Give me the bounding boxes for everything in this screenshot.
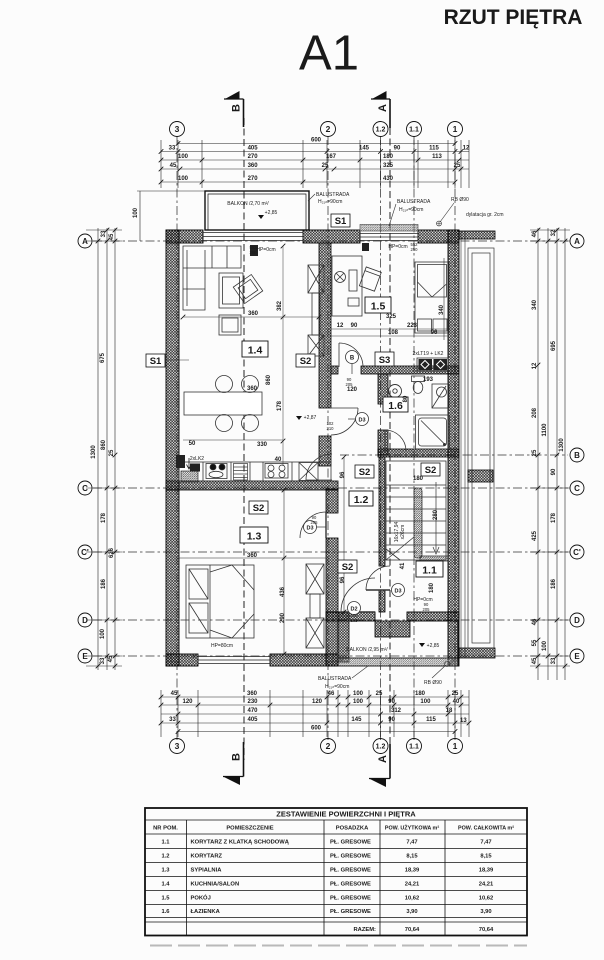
svg-text:100: 100: [178, 176, 189, 182]
svg-text:100: 100: [420, 699, 431, 705]
balustrada label top-right: [389, 199, 431, 226]
svg-text:600: 600: [311, 726, 322, 732]
svg-text:x26cm: x26cm: [400, 525, 406, 540]
svg-text:BALUSTRADA: BALUSTRADA: [397, 199, 431, 205]
grid axis line B horizontal: [340, 454, 568, 456]
svg-text:18,39: 18,39: [405, 868, 420, 874]
svg-text:1.2: 1.2: [354, 494, 369, 506]
svg-text:1.5: 1.5: [161, 896, 170, 902]
svg-text:24,21: 24,21: [405, 882, 420, 888]
bathroom west wall upper: [378, 374, 388, 404]
interior dim line 1.3 vertical: [179, 490, 326, 654]
door tag D3 stairs: [392, 584, 405, 597]
svg-text:ZESTAWIENIE POWIERZCHNI I PIĘT: ZESTAWIENIE POWIERZCHNI I PIĘTRA: [276, 810, 416, 819]
svg-text:186: 186: [551, 578, 557, 589]
svg-text:205: 205: [351, 618, 359, 623]
svg-text:290: 290: [280, 612, 286, 623]
level marker +2.85 bottom balcony: [419, 643, 440, 649]
svg-text:1.3: 1.3: [247, 531, 262, 543]
svg-text:186: 186: [101, 578, 107, 589]
svg-text:193: 193: [423, 377, 434, 383]
svg-text:PŁ. GRESOWE: PŁ. GRESOWE: [330, 896, 371, 902]
svg-text:POMIESZCZENIE: POMIESZCZENIE: [226, 826, 273, 832]
svg-text:325: 325: [383, 163, 394, 169]
svg-text:178: 178: [551, 512, 557, 523]
svg-text:180: 180: [429, 582, 435, 593]
grid bubble 1 top: [448, 122, 463, 137]
svg-text:25: 25: [454, 163, 461, 169]
window jamb roller block 1.4: [250, 245, 258, 256]
room label 1.3: [240, 527, 268, 543]
svg-text:S1: S1: [335, 216, 347, 227]
grid axis line 3: [176, 136, 178, 740]
svg-text:E: E: [574, 652, 580, 661]
grid bubble 1.1 bottom: [407, 739, 422, 754]
svg-text:270: 270: [248, 176, 259, 182]
svg-text:S3: S3: [379, 355, 391, 366]
interior dimension texts 1.3: [247, 553, 286, 623]
left dimension column: [86, 228, 122, 670]
grid bubble 2 bottom: [321, 739, 336, 754]
interior wall under room 1.5 east part: [361, 366, 459, 374]
svg-text:626: 626: [109, 547, 115, 558]
svg-text:205: 205: [311, 520, 319, 525]
kitchen counter room 1.4: [179, 462, 331, 481]
door corridor to stairs: [366, 566, 390, 590]
svg-text:210: 210: [327, 426, 335, 431]
balustrada label top-left: [308, 192, 350, 205]
svg-text:1: 1: [453, 124, 458, 134]
svg-text:HP: HP: [191, 654, 197, 659]
svg-text:+2,87: +2,87: [304, 415, 317, 421]
scan artifact line below table: [150, 945, 527, 947]
grid axis line C horizontal: [93, 487, 568, 489]
svg-text:40: 40: [275, 457, 282, 463]
balustrade french balcony grey band: [360, 225, 418, 232]
svg-text:90: 90: [388, 717, 395, 723]
svg-text:1.1: 1.1: [161, 839, 170, 845]
svg-text:KUCHNIA/SALON: KUCHNIA/SALON: [191, 882, 240, 888]
svg-text:1.1: 1.1: [422, 565, 437, 577]
grid axis line 1.2: [380, 136, 382, 740]
RB drain bottom: [424, 662, 450, 687]
svg-text:BALKON /2,95 m²/: BALKON /2,95 m²/: [346, 647, 388, 653]
grid axis line A horizontal: [93, 240, 568, 242]
stairs room 1.1: [386, 461, 446, 560]
section marker A bottom: [369, 744, 390, 787]
svg-text:7,47: 7,47: [480, 839, 491, 845]
door arc kitchen to corridor: [306, 454, 332, 480]
grid bubble 1.1 top: [407, 122, 422, 137]
exterior wall top segment east: [418, 230, 459, 243]
svg-text:100: 100: [353, 699, 364, 705]
svg-text:H₂₁ₙ=90cm: H₂₁ₙ=90cm: [318, 199, 342, 205]
svg-text:167: 167: [326, 154, 337, 160]
interior dim line corridor vertical: [343, 457, 345, 612]
svg-text:100: 100: [542, 640, 548, 651]
svg-text:D: D: [82, 616, 88, 625]
kitchen fridge crossed: [299, 463, 318, 481]
grid bubble E right: [570, 649, 584, 663]
svg-text:1.4: 1.4: [161, 882, 170, 888]
svg-text:B: B: [350, 356, 355, 362]
svg-text:96: 96: [340, 471, 346, 478]
svg-text:A: A: [377, 755, 389, 763]
lintel label S2 corridor top: [355, 465, 374, 478]
small stacked jamb numbers: [191, 242, 430, 659]
svg-text:25: 25: [452, 691, 459, 697]
svg-text:1.6: 1.6: [161, 909, 170, 915]
svg-text:3: 3: [175, 741, 180, 751]
room label 1.2: [349, 491, 373, 506]
svg-text:180: 180: [383, 154, 394, 160]
svg-text:230: 230: [247, 699, 258, 705]
svg-text:425: 425: [532, 530, 538, 541]
svg-text:96: 96: [340, 576, 346, 583]
svg-text:2: 2: [326, 741, 331, 751]
bed room 1.5: [415, 262, 449, 333]
grid bubble 3 top: [170, 122, 185, 137]
exterior wall top segment middle: [303, 230, 360, 243]
svg-text:180: 180: [413, 476, 424, 482]
svg-text:405: 405: [247, 717, 258, 723]
svg-text:55: 55: [532, 639, 538, 646]
svg-text:H₂₁ₙ=90cm: H₂₁ₙ=90cm: [399, 207, 423, 213]
svg-text:115: 115: [429, 146, 439, 152]
grid bubble A right: [570, 234, 584, 248]
balcony side dim: [137, 191, 205, 241]
svg-text:120: 120: [347, 387, 358, 393]
svg-text:24,21: 24,21: [479, 882, 494, 888]
svg-text:POSADZKA: POSADZKA: [336, 826, 369, 832]
svg-text:40: 40: [453, 699, 460, 705]
svg-text:RB Ø90: RB Ø90: [424, 680, 442, 686]
bathroom west wall lower: [378, 430, 388, 455]
bathroom sink counter: [412, 376, 425, 394]
kitchen wall between 1.4 and 1.3: [166, 481, 338, 490]
svg-text:33: 33: [551, 657, 557, 664]
svg-text:470: 470: [247, 708, 258, 714]
svg-text:+2,85: +2,85: [427, 643, 440, 649]
svg-text:12: 12: [463, 146, 470, 152]
ticks on 1.4 interior dims: [281, 315, 286, 320]
svg-text:280: 280: [433, 509, 439, 520]
svg-text:25: 25: [322, 163, 329, 169]
svg-text:108: 108: [388, 330, 399, 336]
svg-text:695: 695: [551, 340, 557, 351]
door tag D2 balcony door: [348, 602, 361, 615]
grid bubble B right: [570, 448, 584, 462]
svg-text:BALKON /2,70 m²/: BALKON /2,70 m²/: [227, 201, 269, 207]
svg-text:BALUSTRADA: BALUSTRADA: [316, 192, 350, 198]
svg-text:S2: S2: [253, 503, 265, 514]
svg-text:33: 33: [100, 657, 106, 664]
door tag B hall: [346, 351, 359, 375]
grid axis line 1: [454, 136, 456, 740]
svg-text:208: 208: [532, 407, 538, 418]
svg-text:A: A: [377, 104, 389, 112]
svg-text:33: 33: [169, 146, 176, 152]
sofa L-shape room 1.4: [183, 246, 241, 310]
lintel label S2 corridor bottom: [338, 560, 357, 573]
interior wall between 1.4 and 1.5/corridor upper part: [319, 243, 331, 408]
svg-text:D: D: [574, 616, 580, 625]
svg-text:10,62: 10,62: [479, 896, 494, 902]
grid bubble C right: [570, 481, 584, 495]
svg-text:1300: 1300: [91, 445, 97, 459]
svg-text:D3: D3: [306, 526, 313, 532]
grid bubble E left: [78, 649, 92, 663]
stair direction arrow: [433, 482, 439, 554]
stair rail center: [414, 488, 422, 558]
side table room 1.4: [219, 315, 241, 335]
wardrobe column room 1.4: [308, 265, 324, 356]
bathroom shower: [416, 415, 450, 449]
svg-text:3: 3: [175, 124, 180, 134]
interior dimension texts 1.5 and hall: [337, 304, 445, 402]
window room 1.5 french balcony: [360, 231, 418, 242]
dining chairs: [216, 376, 259, 432]
svg-text:NR POM.: NR POM.: [153, 826, 178, 832]
svg-text:145: 145: [359, 146, 370, 152]
svg-text:C': C': [81, 548, 89, 557]
lintel label S2 near wardrobe 1.4: [296, 354, 315, 367]
svg-text:2xLK2: 2xLK2: [190, 456, 204, 462]
interior dim line vertical room 1.4: [183, 246, 319, 466]
svg-text:10,62: 10,62: [405, 896, 420, 902]
svg-text:HP=0cm: HP=0cm: [388, 244, 407, 250]
grid bubble 1.2 top: [373, 122, 388, 137]
svg-text:8,15: 8,15: [480, 854, 492, 860]
level marker +2.85 top balcony: [258, 210, 278, 219]
svg-text:675: 675: [100, 352, 106, 363]
svg-text:120: 120: [182, 699, 193, 705]
wall stub below stair door: [379, 590, 385, 612]
svg-text:860: 860: [101, 439, 107, 450]
svg-text:1.2: 1.2: [376, 744, 386, 751]
svg-text:C: C: [82, 484, 88, 493]
level marker +2.87 room 1.4: [296, 415, 317, 421]
balcony bottom balustrade grey band: [338, 658, 458, 666]
svg-text:45: 45: [108, 655, 114, 662]
svg-text:C: C: [574, 484, 580, 493]
svg-text:+2,85: +2,85: [265, 210, 278, 216]
interior dim line 1.5 vertical: [443, 258, 445, 340]
svg-text:430: 430: [383, 176, 394, 182]
svg-text:180: 180: [415, 691, 426, 697]
svg-text:205: 205: [423, 607, 431, 612]
svg-text:POKÓJ: POKÓJ: [191, 894, 211, 902]
svg-text:POW. UŻYTKOWA m²: POW. UŻYTKOWA m²: [385, 825, 440, 832]
svg-text:A: A: [574, 237, 580, 246]
room label 1.5: [365, 297, 391, 313]
svg-text:KORYTARZ Z KLATKĄ SCHODOWĄ: KORYTARZ Z KLATKĄ SCHODOWĄ: [191, 839, 290, 845]
grid axis line D horizontal: [93, 619, 568, 621]
door 1.4 to corridor arc: [331, 408, 358, 435]
svg-text:POW. CAŁKOWITA m²: POW. CAŁKOWITA m²: [458, 826, 514, 832]
neighbour building bottom hatch band: [459, 648, 495, 658]
svg-text:100: 100: [133, 207, 139, 218]
svg-text:115: 115: [426, 717, 436, 723]
svg-text:100: 100: [353, 691, 364, 697]
svg-text:25: 25: [109, 449, 115, 456]
svg-text:250: 250: [250, 250, 258, 255]
svg-text:1300: 1300: [559, 438, 565, 452]
neighbour building outline: [468, 248, 494, 648]
svg-text:18: 18: [446, 708, 453, 714]
svg-text:8,15: 8,15: [406, 854, 418, 860]
kitchen sink: [206, 464, 227, 479]
svg-text:45: 45: [532, 657, 538, 664]
window jamb roller block 1.5: [362, 243, 369, 251]
wall between 1.3 and corridor upper: [326, 489, 338, 513]
svg-text:100: 100: [100, 628, 106, 639]
washer dryer units hall: [417, 358, 448, 371]
svg-text:H₂₁ₙ=90cm: H₂₁ₙ=90cm: [325, 684, 349, 690]
svg-text:S1: S1: [150, 356, 162, 367]
svg-text:1.1: 1.1: [409, 127, 419, 134]
svg-text:BALUSTRADA: BALUSTRADA: [318, 676, 352, 682]
svg-text:dylatacja gr. 2cm: dylatacja gr. 2cm: [466, 212, 504, 218]
svg-text:46: 46: [532, 230, 538, 237]
desk room 1.5: [332, 256, 362, 316]
svg-text:25: 25: [532, 449, 538, 456]
svg-text:360: 360: [248, 311, 259, 317]
svg-text:RB Ø90: RB Ø90: [451, 197, 469, 203]
svg-text:1.2: 1.2: [376, 127, 386, 134]
svg-text:178: 178: [277, 400, 283, 411]
kitchen dark appliances: [176, 455, 200, 482]
svg-text:B: B: [574, 451, 580, 460]
section line A-A vertical: [389, 128, 391, 762]
grid axis line 2: [327, 136, 329, 740]
balcony west side wall: [338, 612, 349, 662]
svg-text:382: 382: [277, 300, 283, 311]
svg-text:340: 340: [439, 304, 445, 315]
interior dim line room 1.5: [331, 329, 448, 336]
interior dimension texts stairs corridor: [340, 471, 439, 593]
bathroom washbasin round: [389, 385, 402, 398]
svg-text:D3: D3: [394, 589, 401, 595]
south wall of stair hall west part: [326, 612, 375, 621]
svg-text:41: 41: [400, 562, 406, 569]
svg-text:PŁ. GRESOWE: PŁ. GRESOWE: [330, 868, 371, 874]
svg-text:33: 33: [169, 717, 176, 723]
wall connector SE corner of room 1.3: [326, 612, 338, 666]
top dimension block: [161, 140, 469, 188]
south wall of stair hall east part: [407, 612, 459, 621]
coffee table room 1.4: [219, 273, 243, 308]
exterior landing hatched block: [375, 621, 410, 637]
dining table room 1.4: [184, 392, 262, 415]
svg-text:1100: 1100: [542, 423, 548, 437]
balcony top-left balustrade: [205, 191, 309, 230]
svg-text:360: 360: [247, 553, 258, 559]
grid bubble 3 bottom: [170, 739, 185, 754]
svg-text:113: 113: [432, 154, 442, 160]
svg-text:3,90: 3,90: [406, 909, 417, 915]
svg-text:D2: D2: [350, 607, 357, 613]
exterior wall left: [166, 230, 179, 666]
kitchen stove: [265, 464, 288, 479]
balustrada label bottom: [318, 666, 368, 690]
grid bubble C' left: [78, 545, 92, 559]
right dimension column: [530, 228, 570, 680]
svg-text:360: 360: [247, 386, 258, 392]
wall between corridor 1.2 and stairs 1.1: [379, 457, 385, 566]
svg-text:A: A: [82, 237, 88, 246]
svg-text:E: E: [82, 652, 88, 661]
svg-text:3,90: 3,90: [480, 909, 491, 915]
lintel label S2 stairs top: [421, 463, 440, 476]
wall between 1.3 and corridor lower: [326, 538, 338, 612]
svg-text:145: 145: [351, 717, 362, 723]
svg-text:178: 178: [101, 512, 107, 523]
interior dimension texts 1.4: [189, 300, 283, 463]
svg-text:B: B: [231, 753, 243, 761]
bathroom door arc: [385, 430, 406, 451]
svg-text:2xLT19 + LK2: 2xLT19 + LK2: [413, 351, 444, 357]
svg-text:45: 45: [170, 163, 177, 169]
svg-text:90: 90: [551, 468, 557, 475]
interior wall between 1.4 and corridor lower stub: [319, 436, 331, 466]
svg-text:120: 120: [312, 699, 323, 705]
svg-text:S2: S2: [425, 465, 437, 476]
svg-text:13: 13: [460, 718, 467, 724]
door to balcony from stair hall: [341, 578, 375, 612]
svg-text:223: 223: [407, 323, 418, 329]
section marker A top: [371, 91, 390, 128]
exterior wall bottom segment under room 1.3: [270, 654, 338, 666]
bathroom south wall: [378, 449, 459, 457]
grid bubble C' right: [570, 545, 584, 559]
svg-text:32: 32: [551, 229, 557, 236]
svg-text:18,39: 18,39: [479, 868, 494, 874]
svg-text:600: 600: [311, 138, 322, 144]
svg-text:1.3: 1.3: [161, 868, 170, 874]
svg-text:C': C': [573, 548, 581, 557]
svg-text:25: 25: [376, 691, 383, 697]
svg-text:S2: S2: [359, 467, 371, 478]
window bottom room 1.3: [198, 655, 270, 665]
svg-text:90: 90: [394, 146, 401, 152]
stair rail bottom: [420, 556, 448, 561]
svg-text:45: 45: [171, 691, 178, 697]
grid axis line 1.1: [413, 136, 415, 740]
svg-text:70,64: 70,64: [479, 927, 494, 933]
svg-text:HP=0cm: HP=0cm: [256, 247, 275, 253]
svg-text:270: 270: [248, 154, 259, 160]
svg-text:45: 45: [109, 233, 115, 240]
wardrobe room 1.3: [306, 564, 324, 648]
svg-text:340: 340: [532, 299, 538, 310]
svg-text:436: 436: [280, 586, 286, 597]
bottom dimension block: [161, 690, 469, 737]
door 1.3 to corridor: [300, 512, 326, 538]
grid bubble 1 bottom: [448, 739, 463, 754]
svg-text:1.2: 1.2: [161, 854, 169, 860]
room label 1.1: [416, 561, 443, 577]
grid bubble 2 top: [321, 122, 336, 137]
area table: [145, 808, 527, 936]
svg-text:S2: S2: [342, 562, 354, 573]
lintel label S3 hall: [375, 352, 394, 366]
door tag D3 room 1.3: [304, 521, 327, 534]
svg-text:PŁ. GRESOWE: PŁ. GRESOWE: [330, 839, 371, 845]
svg-text:KORYTARZ: KORYTARZ: [191, 854, 223, 860]
svg-text:250: 250: [411, 247, 419, 252]
svg-text:SYPIALNIA: SYPIALNIA: [191, 868, 223, 874]
